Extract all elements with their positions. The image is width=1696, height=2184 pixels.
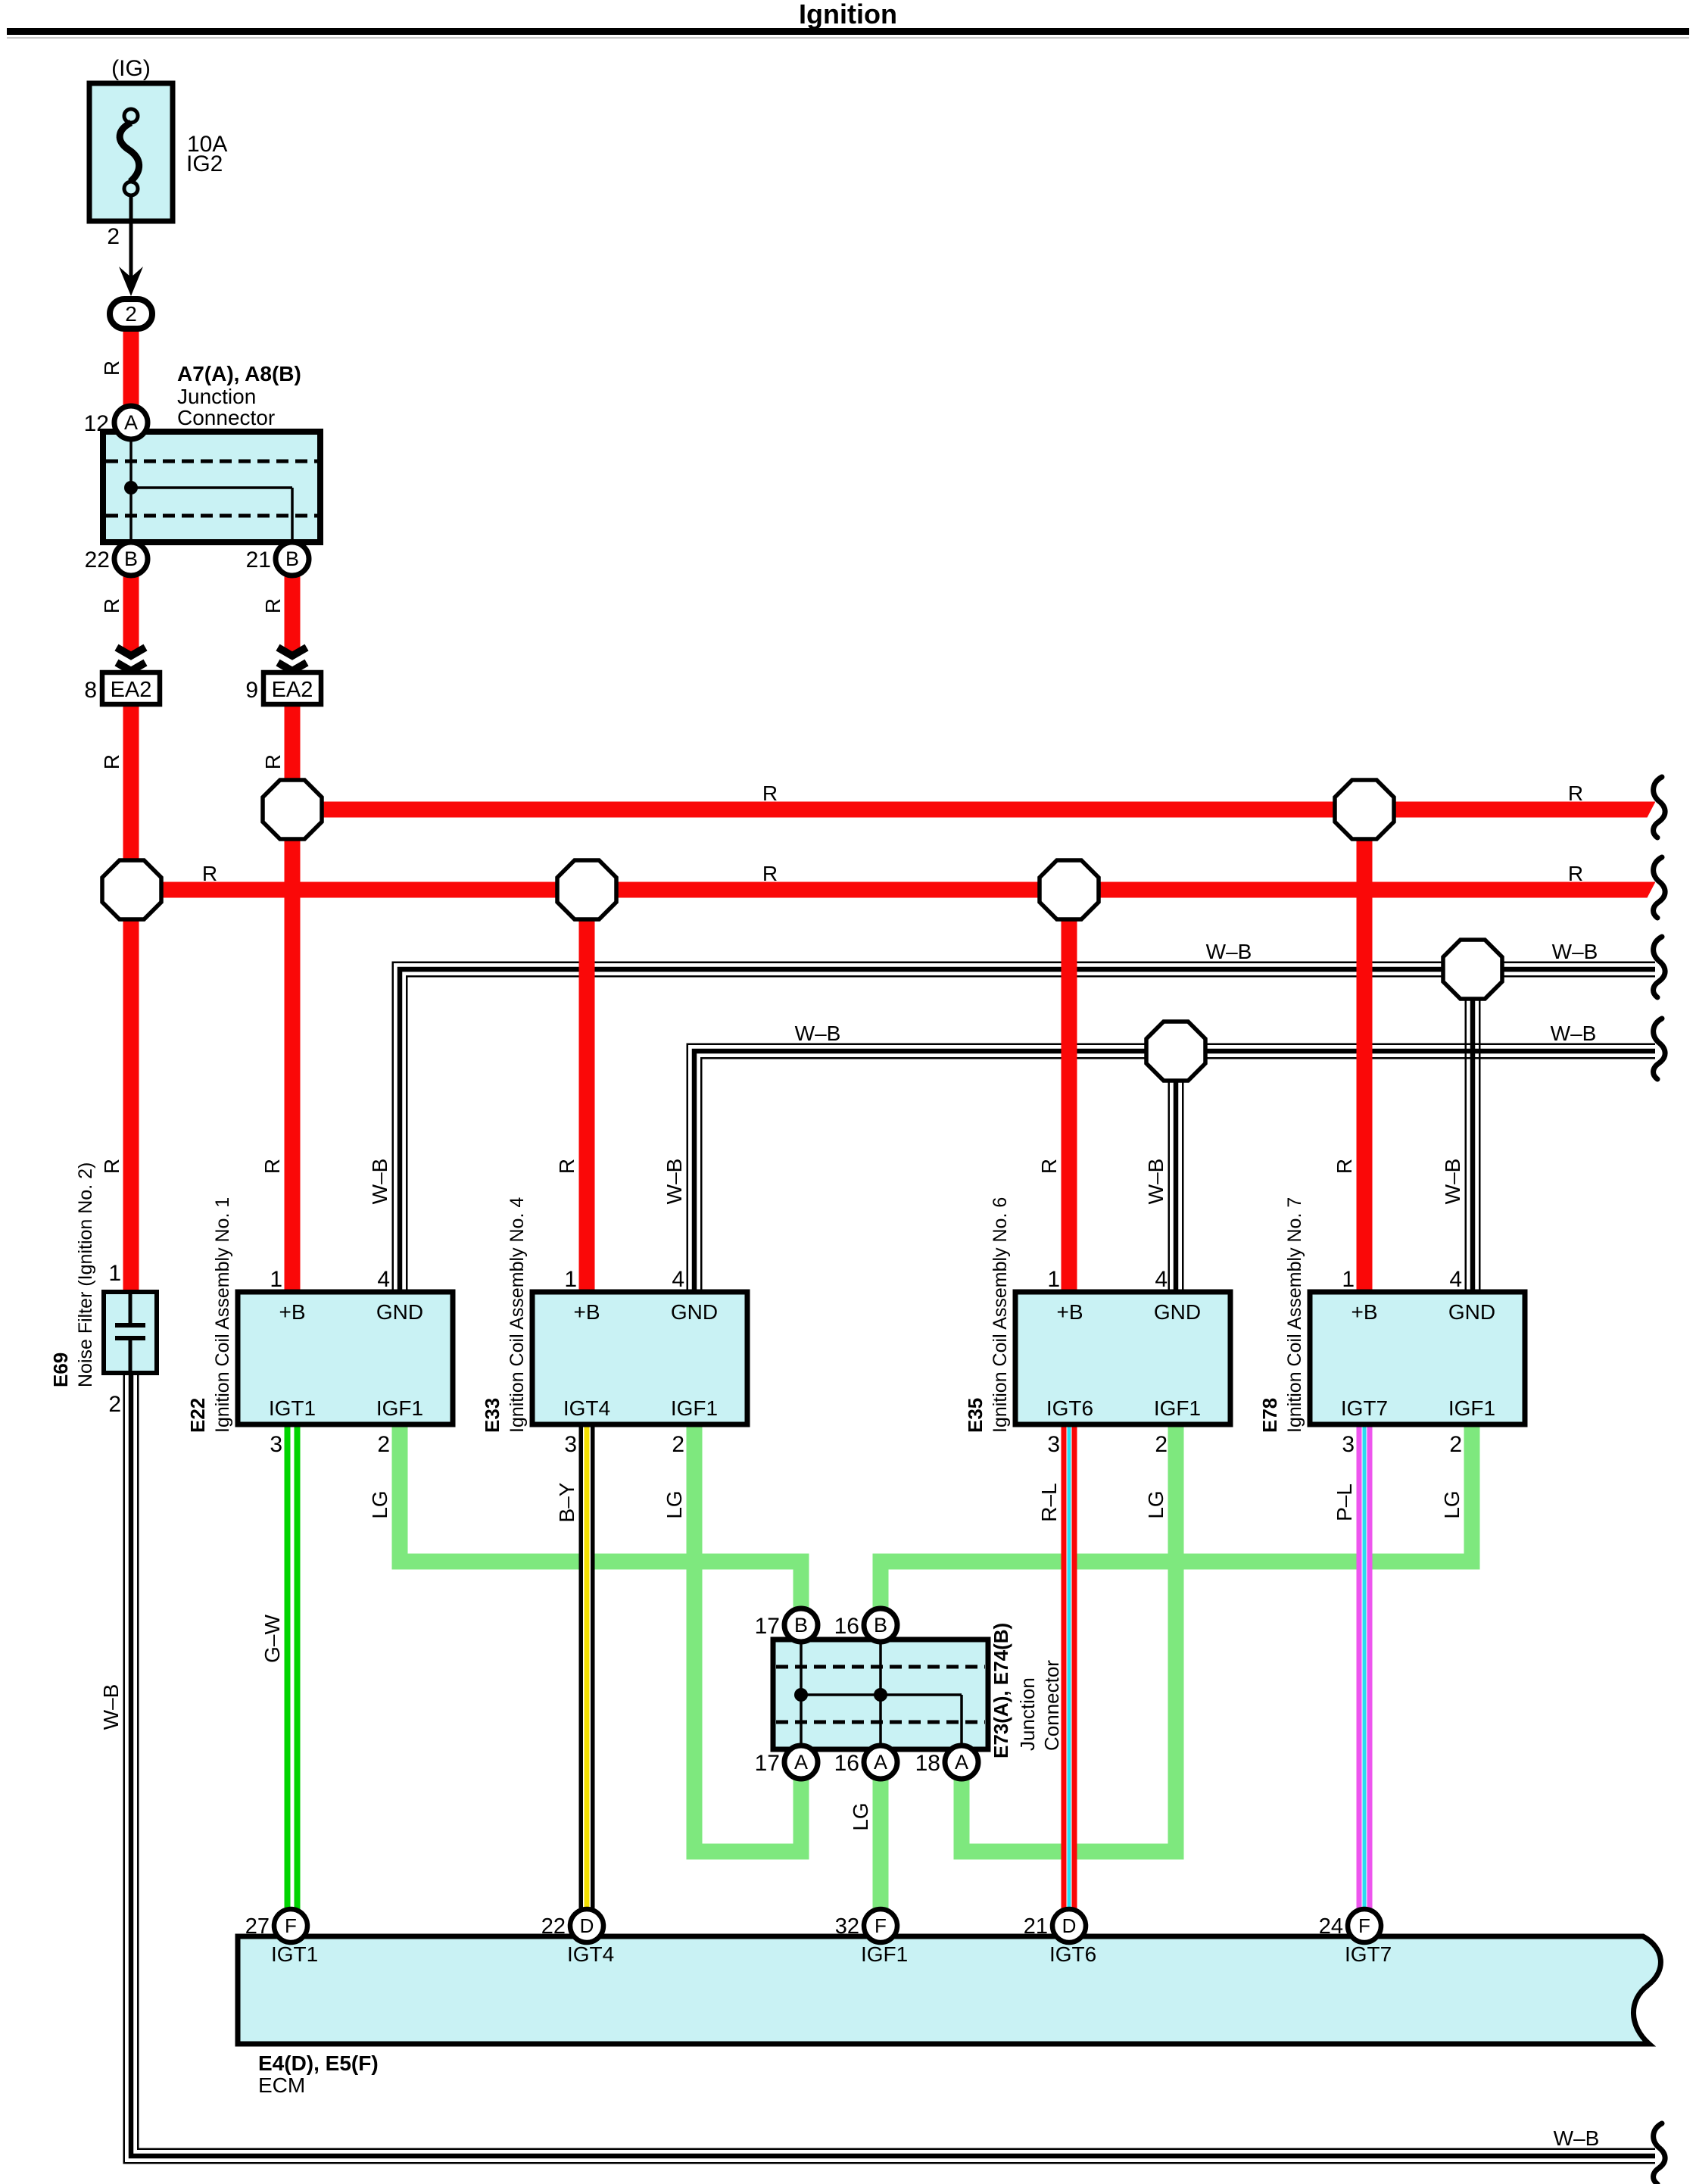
svg-text:+B: +B: [1351, 1300, 1377, 1324]
svg-text:IGT7: IGT7: [1341, 1396, 1388, 1420]
svg-text:W–B: W–B: [662, 1159, 686, 1205]
svg-text:D: D: [580, 1914, 594, 1937]
svg-text:Junction: Junction: [177, 385, 256, 408]
svg-text:B: B: [874, 1614, 887, 1636]
connector oval 2: [110, 299, 152, 329]
wire LG from E35 IGF1 pin 2 to E73 terminal A18: [962, 1424, 1176, 1852]
svg-text:R: R: [555, 1159, 578, 1174]
break symbol W-B run 1 right edge: [1654, 937, 1666, 997]
terminal B pin 16: [864, 1608, 897, 1642]
svg-text:17: 17: [755, 1614, 780, 1639]
svg-text:GND: GND: [1154, 1300, 1201, 1324]
terminal A pin 18: [945, 1746, 978, 1779]
wire W-B run 1 (y=1280) from E22 GND pin 4: [400, 969, 1655, 1292]
svg-text:E22: E22: [186, 1398, 209, 1433]
svg-text:3: 3: [1342, 1432, 1355, 1457]
svg-text:32: 32: [835, 1914, 859, 1939]
octagon junction R run2 / E33 branch: [557, 860, 616, 919]
wire W-B run 2 (y=1388) from E33 GND pin 4: [694, 1051, 1655, 1292]
svg-text:IGF1: IGF1: [861, 1942, 908, 1966]
svg-text:2: 2: [1155, 1432, 1168, 1457]
svg-text:16: 16: [834, 1614, 859, 1639]
svg-text:2: 2: [377, 1432, 390, 1457]
svg-text:IGT6: IGT6: [1049, 1942, 1096, 1966]
ignition coil assembly E33 No. 4: [532, 1292, 747, 1424]
svg-text:B: B: [124, 548, 138, 570]
svg-text:Ignition Coil Assembly No. 4: Ignition Coil Assembly No. 4: [507, 1197, 528, 1433]
wire R bus run 1 (y=1069): [292, 802, 1655, 818]
svg-text:E78: E78: [1258, 1398, 1281, 1433]
svg-text:EA2: EA2: [111, 678, 152, 702]
svg-text:IGT6: IGT6: [1046, 1396, 1093, 1420]
octagon junction R run2 / E69 branch: [102, 860, 161, 919]
svg-text:LG: LG: [1440, 1490, 1464, 1518]
svg-text:4: 4: [1155, 1267, 1168, 1292]
svg-text:A: A: [955, 1751, 968, 1774]
svg-text:E4(D), E5(F): E4(D), E5(F): [258, 2051, 379, 2075]
svg-text:2: 2: [1449, 1432, 1462, 1457]
break symbol R run 1 right edge: [1654, 777, 1666, 838]
svg-text:GND: GND: [1448, 1300, 1495, 1324]
svg-text:8: 8: [84, 678, 97, 703]
svg-text:EA2: EA2: [272, 678, 313, 702]
svg-text:IGT7: IGT7: [1345, 1942, 1392, 1966]
svg-text:Connector: Connector: [1040, 1660, 1063, 1751]
svg-text:4: 4: [672, 1267, 684, 1292]
svg-text:E69: E69: [49, 1353, 72, 1387]
wire R octagon down to E22 +B pin 1: [285, 810, 301, 1292]
octagon junction W-B run2 / E35 GND branch: [1146, 1022, 1205, 1081]
svg-text:Connector: Connector: [177, 406, 275, 429]
svg-text:9: 9: [245, 678, 258, 703]
svg-text:R: R: [762, 862, 778, 885]
svg-text:W–B: W–B: [1144, 1159, 1168, 1205]
svg-text:A: A: [874, 1751, 887, 1774]
svg-text:Ignition Coil Assembly No. 7: Ignition Coil Assembly No. 7: [1284, 1197, 1305, 1433]
svg-text:A7(A), A8(B): A7(A), A8(B): [177, 362, 301, 385]
svg-text:F: F: [1358, 1914, 1370, 1937]
svg-text:R: R: [1333, 1159, 1356, 1174]
svg-text:D: D: [1062, 1914, 1077, 1937]
svg-text:22: 22: [85, 548, 110, 573]
wire G-W E22 IGT1 pin 3 down to ECM terminal 27: [285, 1424, 301, 1909]
terminal A pin 16: [864, 1746, 897, 1779]
svg-text:24: 24: [1319, 1914, 1343, 1939]
svg-text:R–L: R–L: [1037, 1483, 1061, 1521]
wire LG from E33 IGF1 pin 2 to E73 terminal A17: [694, 1424, 801, 1852]
svg-text:IGT1: IGT1: [271, 1942, 318, 1966]
svg-text:IGT4: IGT4: [563, 1396, 610, 1420]
svg-text:ECM: ECM: [258, 2073, 305, 2097]
svg-text:F: F: [874, 1914, 887, 1937]
svg-text:F: F: [285, 1914, 297, 1937]
svg-text:LG: LG: [662, 1490, 686, 1518]
svg-text:Ignition Coil Assembly No. 6: Ignition Coil Assembly No. 6: [990, 1197, 1011, 1433]
terminal A pin 17: [784, 1746, 818, 1779]
octagon junction R run1 / E78 branch: [1335, 780, 1394, 839]
ECM terminal 32 F IGF1: [864, 1909, 897, 1942]
wire LG from E78 IGF1 pin 2 to E73 terminal B16: [881, 1424, 1472, 1610]
svg-text:18: 18: [915, 1751, 940, 1776]
svg-text:(IG): (IG): [111, 56, 151, 81]
svg-text:IG2: IG2: [186, 151, 223, 176]
ignition coil assembly E78 No. 7: [1310, 1292, 1525, 1424]
break symbol R run 2 right edge: [1654, 857, 1666, 918]
wire W-B from octagon down to E78 GND pin 4: [1465, 998, 1481, 1292]
octagon junction R run1 / EA2-9 branch: [263, 780, 322, 839]
svg-text:LG: LG: [1144, 1490, 1168, 1518]
octagon junction W-B run1 / E78 GND branch: [1443, 940, 1502, 999]
ECM terminal 21 D IGT6: [1052, 1909, 1086, 1942]
svg-text:IGF1: IGF1: [1154, 1396, 1201, 1420]
svg-text:R: R: [100, 360, 123, 376]
ECM E4(D), E5(F): [238, 1936, 1660, 2044]
ECM terminal 27 F IGT1: [274, 1909, 307, 1942]
svg-text:Junction: Junction: [1016, 1677, 1039, 1751]
svg-text:R: R: [1568, 782, 1583, 805]
svg-text:W–B: W–B: [1552, 940, 1598, 963]
wire R-L E35 IGT6 pin 3 down to ECM terminal 21: [1062, 1424, 1077, 1909]
svg-text:Ignition: Ignition: [799, 0, 897, 30]
svg-text:B: B: [285, 548, 299, 570]
svg-text:R: R: [100, 754, 123, 769]
break symbol W-B bottom run right edge: [1654, 2123, 1666, 2184]
svg-text:E73(A), E74(B): E73(A), E74(B): [990, 1623, 1012, 1758]
ground connector EA2 pin 9: [263, 672, 321, 704]
svg-text:R: R: [762, 782, 778, 805]
svg-text:+B: +B: [1056, 1300, 1083, 1324]
arrow into EA2 pin 8: [117, 647, 145, 656]
svg-text:17: 17: [755, 1751, 780, 1776]
svg-text:W–B: W–B: [1551, 1022, 1597, 1045]
ground connector EA2 pin 8: [102, 672, 160, 704]
svg-text:Ignition Coil Assembly No. 1: Ignition Coil Assembly No. 1: [212, 1197, 233, 1433]
svg-text:1: 1: [270, 1267, 282, 1292]
svg-text:3: 3: [270, 1432, 282, 1457]
svg-text:B: B: [794, 1614, 808, 1636]
junction connector A7(A), A8(B): [103, 432, 320, 542]
svg-text:A: A: [794, 1751, 808, 1774]
svg-text:1: 1: [108, 1261, 121, 1286]
svg-text:IGT1: IGT1: [269, 1396, 316, 1420]
svg-text:IGF1: IGF1: [1448, 1396, 1495, 1420]
svg-text:R: R: [100, 598, 123, 613]
svg-text:IGT4: IGT4: [567, 1942, 614, 1966]
svg-text:+B: +B: [279, 1300, 305, 1324]
svg-text:LG: LG: [849, 1802, 872, 1830]
wire R junction B22 down to arrow EA2-8: [123, 575, 139, 656]
svg-text:21: 21: [1024, 1914, 1048, 1939]
arrow into EA2 pin 9: [278, 647, 307, 656]
svg-text:IGF1: IGF1: [376, 1396, 423, 1420]
wire P-L E78 IGT7 pin 3 down to ECM terminal 24: [1357, 1424, 1373, 1909]
svg-text:GND: GND: [671, 1300, 718, 1324]
title rule: [7, 28, 1689, 35]
wire R octagon down to E69 noise filter pin 1: [123, 890, 139, 1292]
svg-text:G–W: G–W: [260, 1615, 284, 1663]
ECM terminal 22 D IGT4: [570, 1909, 603, 1942]
svg-text:IGF1: IGF1: [671, 1396, 718, 1420]
wire R EA2-9 down to octagon junction: [285, 704, 301, 810]
svg-text:21: 21: [246, 548, 271, 573]
terminal B pin 21: [276, 542, 309, 576]
svg-text:2: 2: [107, 224, 120, 249]
svg-text:R: R: [1037, 1159, 1061, 1174]
wire W-B from octagon to E35 GND pin 4: [1168, 1081, 1184, 1292]
wire R fuse to junction connector A: [123, 328, 139, 407]
svg-text:4: 4: [377, 1267, 390, 1292]
svg-text:R: R: [100, 1159, 123, 1174]
wire W-B bottom run (y=2847) from E69 noise filter pin 2: [131, 1373, 1655, 2156]
svg-text:16: 16: [834, 1751, 859, 1776]
ignition coil assembly E35 No. 6: [1015, 1292, 1230, 1424]
svg-text:W–B: W–B: [1441, 1159, 1464, 1205]
ignition coil assembly E22 No. 1: [238, 1292, 453, 1424]
svg-text:W–B: W–B: [368, 1159, 391, 1205]
svg-text:R: R: [202, 862, 217, 885]
wire LG from E73 terminal A16 down to ECM IGF1 terminal 32: [873, 1779, 889, 1909]
svg-text:4: 4: [1449, 1267, 1462, 1292]
wire R EA2-8 down to octagon junction: [123, 704, 139, 890]
svg-text:R: R: [1568, 862, 1583, 885]
wire B-Y E33 IGT4 pin 3 down to ECM terminal 22: [579, 1424, 595, 1909]
terminal B pin 17: [784, 1608, 818, 1642]
svg-text:1: 1: [1342, 1267, 1355, 1292]
arrow connector dart: [119, 267, 143, 296]
svg-text:E35: E35: [964, 1398, 987, 1433]
svg-text:W–B: W–B: [99, 1684, 123, 1730]
svg-text:R: R: [261, 754, 285, 769]
wire crossing patch W-B run2 over stub: [1465, 1044, 1481, 1046]
break symbol W-B run 2 right edge: [1654, 1019, 1666, 1079]
junction connector E73(A), E74(B): [773, 1640, 988, 1749]
svg-text:W–B: W–B: [795, 1022, 841, 1045]
svg-text:Noise Filter (Ignition No. 2): Noise Filter (Ignition No. 2): [75, 1162, 96, 1387]
svg-text:1: 1: [1047, 1267, 1060, 1292]
terminal B pin 22: [114, 542, 148, 576]
svg-text:A: A: [124, 411, 138, 434]
svg-text:3: 3: [564, 1432, 577, 1457]
svg-text:+B: +B: [573, 1300, 600, 1324]
terminal A pin 12: [114, 406, 148, 439]
svg-text:27: 27: [245, 1914, 270, 1939]
svg-text:E33: E33: [481, 1398, 503, 1433]
svg-text:22: 22: [541, 1914, 566, 1939]
svg-text:B–Y: B–Y: [555, 1482, 578, 1522]
svg-text:R: R: [260, 1159, 284, 1174]
svg-text:12: 12: [84, 411, 109, 436]
svg-text:GND: GND: [376, 1300, 423, 1324]
wire fuse pin 2 down to connector: [129, 221, 133, 288]
svg-text:W–B: W–B: [1554, 2126, 1600, 2150]
svg-text:2: 2: [108, 1392, 121, 1417]
svg-text:LG: LG: [368, 1490, 391, 1518]
wire R junction B21 down to arrow EA2-9: [285, 575, 301, 656]
noise filter E69 (capacitor): [104, 1292, 157, 1373]
wire R bus run 2 (y=1175): [132, 882, 1655, 898]
svg-text:1: 1: [564, 1267, 577, 1292]
svg-text:R: R: [261, 598, 285, 613]
svg-text:P–L: P–L: [1333, 1484, 1356, 1521]
ECM terminal 24 F IGT7: [1348, 1909, 1381, 1942]
svg-text:3: 3: [1047, 1432, 1060, 1457]
octagon junction R run2 / E35 branch: [1040, 860, 1099, 919]
svg-text:2: 2: [125, 302, 137, 326]
wire LG from E22 IGF1 pin 2 to E73 terminal B17: [400, 1424, 801, 1610]
svg-text:2: 2: [672, 1432, 684, 1457]
wire R octagon down to E35 +B pin 1: [1062, 890, 1077, 1292]
wire R octagon down to E33 +B pin 1: [579, 890, 595, 1292]
wire R octagon down to E78 +B pin 1: [1357, 810, 1373, 1292]
svg-text:W–B: W–B: [1206, 940, 1252, 963]
